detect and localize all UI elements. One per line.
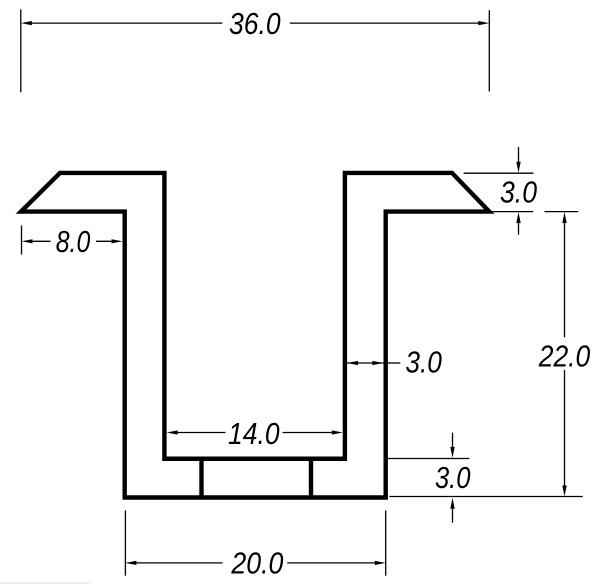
dim 3.0 wing: extension line top — [464, 172, 534, 174]
dim 36.0 arrow left — [21, 21, 32, 25]
dim 3.0 wall: dimension line with outward arrows — [347, 362, 383, 364]
dim 8.0 extension line — [21, 225, 23, 254]
dim 3.0 bottom: lower arrow — [450, 498, 454, 509]
dim 22.0 dimension line vertical — [564, 223, 566, 487]
svg-text:36.0: 36.0 — [229, 6, 281, 41]
dim 20.0 extension line right — [385, 510, 387, 575]
rib left (bottom slot wall) — [199, 459, 203, 498]
dim 36.0 arrow right — [478, 21, 489, 25]
svg-text:3.0: 3.0 — [435, 460, 471, 495]
dim 3.0 wing: lower arrow — [516, 212, 520, 223]
dim 20.0 arrow left — [125, 561, 136, 565]
dim 8.0 dimension line — [33, 240, 112, 242]
profile outline (U-channel cross-section) — [21, 173, 489, 498]
dim 3.0 bottom: upper arrow — [452, 433, 454, 447]
dim 20.0 extension line left — [124, 510, 126, 575]
dim 3.0 wing: upper arrow — [518, 147, 520, 162]
svg-text:3.0: 3.0 — [500, 174, 537, 209]
faint table border fragment bottom-left — [0, 582, 89, 584]
dim 20.0 dimension line — [136, 562, 374, 564]
svg-text:14.0: 14.0 — [228, 416, 280, 451]
dim 14.0 arrow left — [167, 430, 178, 434]
dim 3.0 wall: leader stub — [388, 362, 400, 364]
dim 20.0 arrow right — [375, 561, 386, 565]
dim 22.0: extension line bottom (shared with dim 3.0 base) — [389, 496, 582, 498]
dim 3.0 bottom: extension line at inner bottom — [388, 458, 469, 460]
svg-text:8.0: 8.0 — [56, 224, 91, 259]
dim 22.0 arrow top — [562, 212, 566, 223]
dim 8.0 arrow left — [22, 239, 33, 243]
svg-text:20.0: 20.0 — [231, 546, 284, 581]
dim 3.0 wing: extension line bottom — [490, 211, 533, 213]
dim 14.0 dimension line — [178, 432, 332, 434]
dim 36.0 dimension line — [32, 22, 479, 24]
svg-text:22.0: 22.0 — [538, 338, 590, 373]
dim 14.0 arrow right — [332, 430, 343, 434]
dim 22.0 arrow bottom — [562, 486, 566, 497]
dim 36.0 extension line left — [20, 9, 22, 92]
dim 22.0: extension line top — [545, 211, 579, 213]
dim 36.0 extension line right — [488, 10, 490, 91]
dim 8.0 arrow right — [112, 239, 123, 243]
rib right (bottom slot wall) — [309, 459, 313, 498]
svg-text:3.0: 3.0 — [405, 344, 442, 379]
